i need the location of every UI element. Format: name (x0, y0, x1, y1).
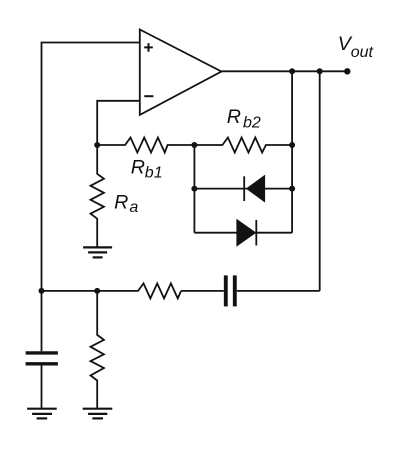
wire feedback from output to diode network (291, 71, 293, 232)
wire left rail to non-inverting input (42, 43, 140, 291)
resistor Rb2 (194, 138, 292, 153)
capacitor C1 (26, 353, 58, 364)
svg-text:R: R (131, 157, 145, 179)
svg-text:a: a (129, 199, 138, 216)
node A (94, 142, 100, 148)
node middle left (39, 288, 45, 294)
node B (191, 142, 197, 148)
node middle R bottom (94, 288, 100, 294)
label Rb1 (131, 157, 163, 182)
wire left rail lower (41, 291, 43, 351)
node output 2 (317, 68, 323, 74)
node D1 left (191, 186, 197, 192)
svg-text:b2: b2 (243, 115, 261, 132)
node D1 right (289, 186, 295, 192)
capacitor C2 (226, 275, 235, 306)
node output 1 (289, 68, 295, 74)
node Vout terminal (344, 68, 350, 74)
resistor Ra (91, 145, 104, 247)
label Rb2 (227, 106, 261, 132)
wire from output node down to RC branch (319, 71, 321, 291)
diode D2 (236, 219, 256, 247)
label Ra (114, 192, 138, 216)
ground below C1 (27, 409, 57, 419)
svg-text:R: R (227, 106, 241, 128)
wire lower diode branch (194, 232, 292, 234)
wire inverting input (97, 101, 140, 145)
op-amp U1 (140, 30, 222, 115)
svg-text:out: out (351, 44, 374, 61)
diode D1 (244, 175, 265, 203)
wire middle right segment (237, 290, 320, 292)
wire output (221, 70, 347, 72)
wire node B down to diode branch (193, 145, 195, 233)
svg-text:R: R (114, 192, 128, 214)
node C (289, 142, 295, 148)
ground below Ra (83, 247, 112, 257)
ground below shunt resistor (83, 409, 113, 419)
resistor R shunt (91, 291, 104, 409)
resistor R series (42, 283, 224, 298)
resistor Rb1 (97, 138, 194, 153)
label Vout (338, 33, 374, 61)
wire C1 to ground (41, 366, 43, 409)
wire upper diode branch (194, 188, 292, 190)
svg-text:b1: b1 (145, 165, 163, 182)
